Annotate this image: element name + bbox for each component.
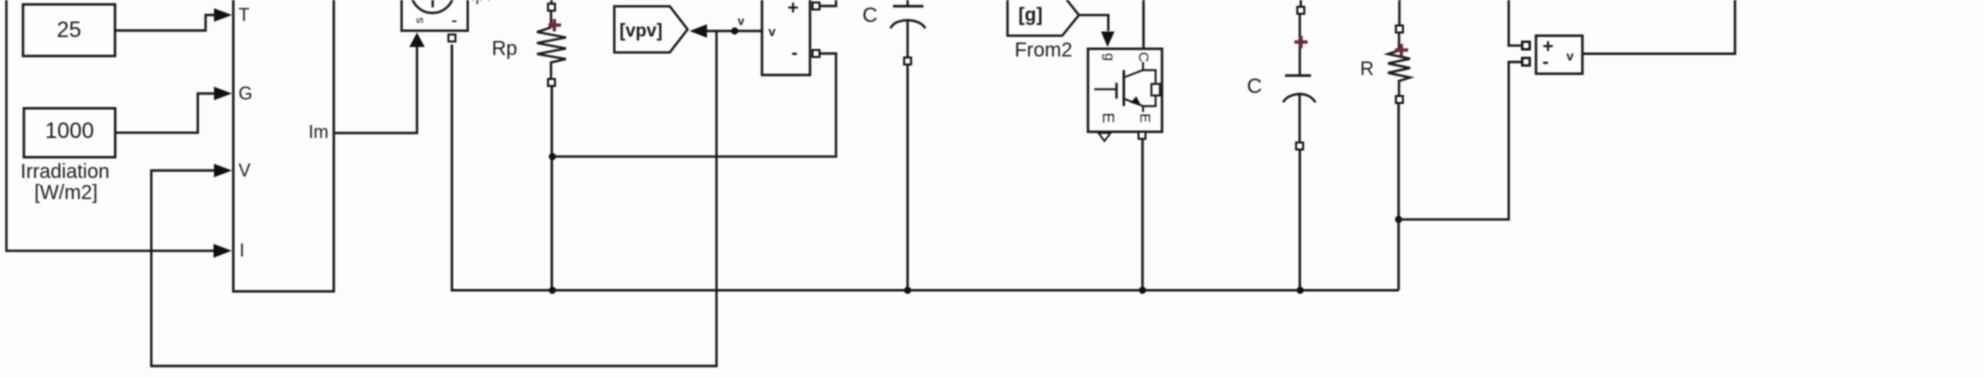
svg-text:[vpv]: [vpv]	[619, 21, 662, 41]
svg-text:C: C	[1136, 52, 1152, 62]
wire Im output to current source s input	[334, 33, 425, 134]
svg-text:E: E	[1099, 113, 1116, 124]
constant block 25	[23, 4, 115, 56]
goto tag [vpv]	[614, 6, 687, 52]
label Rp	[492, 38, 518, 60]
wire U2 minus terminal to Rp node	[552, 50, 836, 157]
svg-text:g: g	[1102, 53, 1118, 61]
wire collector from top to IGBT	[1142, 0, 1145, 49]
junction Rp / minus wire	[549, 153, 556, 160]
svg-text:Irradiation: Irradiation	[21, 161, 110, 183]
wire C1 to rail	[906, 65, 909, 291]
junction IGBT emitter / rail	[1139, 287, 1146, 294]
svg-text:[g]: [g]	[1018, 5, 1042, 26]
wire vpv node to V input	[151, 31, 716, 366]
resistor Rp	[537, 0, 566, 86]
junction C1 / rail	[904, 287, 911, 294]
from tag [g] From2	[1008, 0, 1079, 62]
IGBT emitter port and wire to rail	[1139, 132, 1146, 290]
node vpv junction dot	[731, 27, 738, 34]
svg-text:25: 25	[57, 17, 81, 42]
svg-text:R: R	[1360, 59, 1374, 80]
svg-text:1000: 1000	[45, 118, 94, 143]
controlled current source Ipv	[402, 0, 468, 31]
svg-text:Rp: Rp	[492, 38, 518, 60]
wire 25 to T input	[115, 8, 232, 30]
junction R / v2 minus wire	[1395, 216, 1402, 223]
svg-text:v: v	[768, 24, 776, 39]
svg-text:Ipv: Ipv	[471, 0, 494, 5]
svg-text:-: -	[1542, 52, 1548, 73]
svg-text:s: s	[412, 18, 426, 24]
svg-text:+: +	[787, 0, 798, 19]
label Irradiation [W/m2]	[21, 161, 110, 204]
svg-text:Im: Im	[309, 122, 329, 142]
label Ipv (clipped at top)	[471, 0, 494, 5]
svg-text:G: G	[239, 83, 253, 103]
wire current source to bottom rail and rail	[452, 45, 1399, 291]
svg-text:E: E	[1138, 113, 1154, 122]
capacitor C2	[1247, 0, 1316, 150]
capacitor C1	[862, 0, 925, 65]
wire 1000 to G input	[115, 87, 232, 133]
constant block 1000	[24, 108, 115, 157]
wire from top-left to I input	[6, 0, 231, 258]
resistor R load	[1388, 0, 1410, 103]
wire R bottom to rail	[1397, 103, 1400, 290]
wire C2 to rail	[1299, 150, 1302, 291]
svg-text:v: v	[738, 14, 745, 28]
wire Rp bottom to rail	[551, 86, 554, 290]
svg-text:v: v	[1566, 49, 1574, 64]
svg-text:From2: From2	[1015, 40, 1073, 62]
svg-text:I: I	[240, 241, 245, 261]
wire voltage measurement output to top	[1582, 0, 1735, 54]
svg-text:C: C	[862, 4, 877, 27]
junction C2 / rail	[1297, 287, 1304, 294]
wire v output to goto vpv	[690, 24, 763, 37]
port of current source	[448, 35, 455, 42]
IGBT m port (unconnected)	[1099, 133, 1111, 141]
wire from top to voltage measurement plus	[1509, 0, 1530, 49]
label R	[1360, 59, 1374, 80]
voltage measurement U2 (flipped)	[762, 0, 810, 75]
IGBT Q1	[1088, 49, 1162, 132]
wire From2 to IGBT gate	[1079, 15, 1115, 47]
svg-text:V: V	[239, 160, 251, 180]
svg-text:-: -	[791, 43, 797, 64]
wire R node to voltage measurement minus	[1399, 58, 1530, 219]
svg-text:C: C	[1247, 75, 1262, 98]
svg-text:[W/m2]: [W/m2]	[34, 182, 97, 204]
PV array subsystem block U1	[233, 0, 333, 291]
voltage measurement U3	[1536, 36, 1582, 74]
label v on vpv wire	[738, 14, 745, 28]
svg-text:T: T	[239, 5, 250, 25]
wire U2 plus terminal up	[813, 0, 837, 10]
junction Rp / rail	[549, 287, 556, 294]
